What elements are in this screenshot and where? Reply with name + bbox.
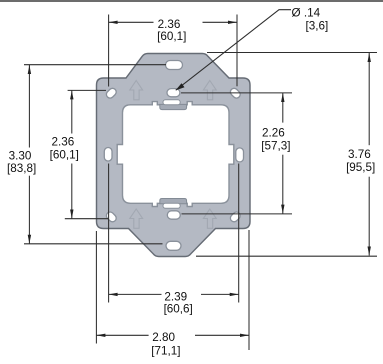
svg-text:[60,1]: [60,1]: [157, 30, 186, 43]
svg-text:2.39: 2.39: [164, 290, 187, 303]
svg-text:[83,8]: [83,8]: [7, 162, 36, 175]
svg-text:2.36: 2.36: [52, 136, 75, 149]
svg-text:[57,3]: [57,3]: [261, 140, 290, 153]
svg-text:[71,1]: [71,1]: [151, 345, 180, 358]
svg-text:2.80: 2.80: [152, 331, 175, 344]
svg-text:Ø .14: Ø .14: [292, 7, 321, 20]
svg-text:[3,6]: [3,6]: [306, 19, 329, 32]
svg-text:[60,6]: [60,6]: [164, 303, 193, 316]
svg-text:2.26: 2.26: [262, 127, 285, 140]
svg-text:2.36: 2.36: [158, 18, 181, 31]
svg-text:[95,5]: [95,5]: [346, 161, 375, 174]
svg-text:3.30: 3.30: [9, 150, 32, 163]
svg-text:[60,1]: [60,1]: [50, 148, 79, 161]
svg-text:3.76: 3.76: [348, 148, 371, 161]
